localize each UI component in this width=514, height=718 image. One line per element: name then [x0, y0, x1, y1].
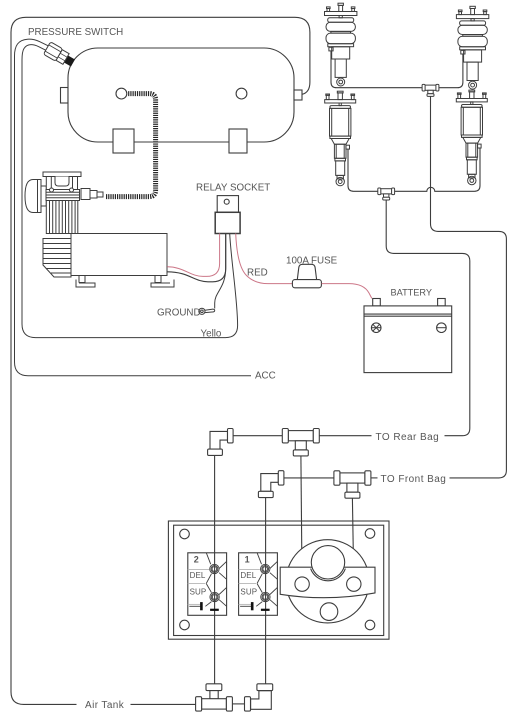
compressor outlet fittings	[81, 189, 90, 200]
switch 2	[188, 553, 227, 616]
svg-text:RED: RED	[247, 268, 268, 279]
wire: relay red wire to compressor	[167, 234, 219, 277]
wire: front line elbow to switch 1	[265, 498, 267, 684]
svg-text:GROUND: GROUND	[157, 308, 201, 319]
pipe elbow front panel line	[258, 471, 284, 498]
air tank mounting bracket left	[113, 129, 134, 153]
ground ring terminal	[199, 308, 215, 314]
svg-text:Yello: Yello	[201, 329, 222, 340]
wire: main air line from tank around border to Air Tank label	[11, 17, 310, 704]
wire: rear line elbow to switch 2	[214, 455, 216, 683]
compressor motor section	[43, 239, 71, 278]
air strut rear-left (sleeve)	[325, 91, 356, 186]
svg-text:Air Tank: Air Tank	[85, 700, 125, 711]
svg-text:PRESSURE SWITCH: PRESSURE SWITCH	[28, 27, 123, 38]
svg-text:TO Front Bag: TO Front Bag	[381, 474, 447, 485]
wire: relay ground wire	[215, 234, 226, 309]
svg-text:ACC: ACC	[255, 371, 276, 382]
wire: rear line elbow to T	[233, 435, 282, 437]
svg-text:1: 1	[245, 554, 250, 564]
pipe T front panel line	[334, 471, 371, 498]
compressor head fins	[46, 190, 80, 201]
pressure switch	[43, 42, 76, 69]
air tank mounting bracket right	[229, 129, 247, 153]
control panel plate	[168, 521, 389, 639]
wire: bottom T to bottom elbow	[232, 703, 244, 705]
wire: air line front-right strut to T	[439, 54, 463, 87]
compressor foot left	[79, 276, 85, 283]
compressor foot right	[155, 276, 161, 283]
wire: rear T down to gauge left port	[301, 456, 302, 577]
compressor air filter	[25, 180, 41, 213]
pipe T rear panel line	[282, 429, 319, 456]
wire: air line T to rear-right strut with hop over front line	[395, 148, 480, 191]
compressor body	[71, 234, 167, 276]
braided hose tank to compressor	[106, 94, 156, 197]
gauge	[280, 540, 375, 623]
air tank	[61, 48, 303, 142]
pipe elbow rear panel line	[208, 429, 234, 456]
svg-text:BATTERY: BATTERY	[391, 288, 433, 298]
wire: front bag run from top T down right side to TO Front Bag	[431, 96, 507, 478]
compressor	[25, 172, 174, 287]
air strut front-left (bellows)	[325, 3, 357, 86]
svg-text:RELAY SOCKET: RELAY SOCKET	[196, 183, 270, 194]
pipe elbow at air tank feed (bottom)	[245, 684, 273, 711]
pipe T front bags (top)	[422, 84, 439, 96]
svg-text:2: 2	[194, 554, 199, 564]
wire: front T down to gauge right port	[352, 498, 353, 577]
wire: air line rear-left strut to T	[348, 149, 378, 191]
air strut front-right (bellows)	[456, 6, 488, 89]
wire: TO Front Bag label line left segment	[371, 477, 378, 479]
wire: relay black wire to compressor	[167, 234, 226, 282]
pipe T at air tank feed (bottom)	[196, 684, 233, 711]
wire: relay red wire to fuse	[236, 234, 293, 284]
svg-text:TO Rear Bag: TO Rear Bag	[376, 432, 440, 443]
pipe T rear bags	[378, 188, 395, 200]
wire: red wire fuse to battery	[322, 284, 372, 299]
wire: rear bag run from strut T down right side to TO Rear Bag	[386, 200, 470, 436]
compressor cylinder fins	[46, 201, 78, 234]
wire: air line front-left strut to T	[331, 51, 422, 88]
wire: front line elbow to T	[284, 477, 334, 479]
switch 1	[239, 553, 278, 616]
svg-text:100A FUSE: 100A FUSE	[286, 256, 338, 267]
battery	[364, 299, 452, 373]
battery terminal screws	[371, 324, 446, 331]
compressor head bracket	[43, 172, 81, 177]
100A fuse holder	[292, 264, 321, 288]
relay socket	[215, 196, 240, 234]
air strut rear-right (sleeve)	[456, 90, 487, 185]
wire: pressure switch ACC wire	[15, 39, 252, 376]
air tank port left	[116, 88, 127, 99]
wire: air line segment from Air Tank label to bottom T	[131, 703, 196, 705]
wire: pressure switch Yellow wire to relay	[22, 45, 238, 338]
wire: TO Rear Bag label line left segment	[319, 435, 372, 437]
air tank port right	[236, 88, 247, 99]
